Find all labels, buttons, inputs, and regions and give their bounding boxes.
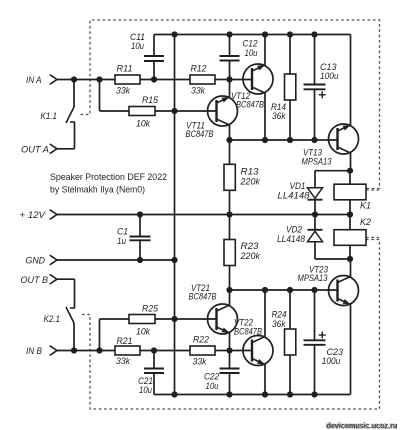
wire VT22 emitter — [264, 365, 266, 395]
svg-text:BC847B: BC847B — [234, 327, 262, 338]
wire GND — [57, 259, 175, 261]
resistor R12 — [190, 75, 215, 84]
svg-text:BC847B: BC847B — [186, 129, 214, 140]
port OUT A — [50, 144, 57, 154]
junction dots — [71, 76, 77, 82]
svg-text:220k: 220k — [240, 177, 262, 188]
svg-text:33k: 33k — [193, 357, 208, 368]
svg-text:LL4148: LL4148 — [278, 190, 311, 201]
svg-text:220k: 220k — [240, 251, 262, 262]
diode VD2 LL4148 — [314, 215, 316, 230]
transistor VT21 — [208, 304, 238, 334]
svg-text:+ 12V: + 12V — [20, 210, 47, 221]
port IN B — [50, 346, 57, 356]
resistor R11 — [115, 75, 140, 84]
svg-text:K2.1: K2.1 — [44, 314, 61, 325]
svg-text:LL4148: LL4148 — [277, 234, 306, 245]
svg-text:10k: 10k — [136, 327, 151, 338]
wire GND bottom bus — [154, 394, 351, 396]
transistor VT11 — [208, 96, 238, 126]
dashed PCB outline — [81, 20, 380, 409]
wire VT12 emitter — [264, 35, 266, 66]
svg-text:33k: 33k — [116, 356, 131, 367]
switch K2.1 — [73, 323, 75, 351]
resistor R24 — [289, 290, 291, 329]
svg-text:36k: 36k — [272, 319, 287, 330]
wire R25 branch — [99, 319, 101, 351]
wire VT11 collector — [229, 125, 231, 140]
transistor VT22 — [243, 336, 273, 366]
wire bus3 — [230, 289, 338, 291]
svg-text:BC847B: BC847B — [236, 100, 264, 111]
svg-text:R25: R25 — [142, 304, 159, 315]
svg-text:33k: 33k — [191, 86, 206, 97]
capacitor C21 — [153, 351, 155, 369]
capacitor C1 — [139, 215, 141, 237]
resistor R22 — [190, 346, 215, 355]
wire VT13 emitter — [350, 35, 352, 126]
wire VT13 collector — [350, 153, 352, 171]
svg-text:devicemusic.ucoz.ru: devicemusic.ucoz.ru — [327, 420, 398, 430]
svg-text:K1.1: K1.1 — [41, 111, 58, 122]
resistor R15 — [129, 107, 155, 116]
svg-text:33k: 33k — [116, 86, 131, 97]
resistor R13 — [229, 140, 231, 164]
port GND — [50, 255, 57, 265]
svg-text:OUT A: OUT A — [21, 145, 49, 156]
svg-text:IN A: IN A — [26, 75, 42, 86]
wire VT22 collector — [264, 290, 266, 337]
relay coil K1 — [349, 171, 351, 185]
capacitor C23 — [314, 290, 316, 340]
capacitor C13 — [314, 35, 316, 85]
wire VT23 emitter — [350, 305, 352, 395]
transistor VT12 — [243, 64, 273, 94]
wire IN B — [57, 350, 115, 352]
resistor R14 — [289, 35, 291, 75]
svg-text:K2: K2 — [360, 217, 372, 228]
wire OUT B — [57, 278, 75, 280]
svg-text:10u: 10u — [131, 41, 145, 52]
wire VT21 collector — [229, 290, 231, 305]
resistor R21 — [115, 346, 140, 355]
port IN A — [50, 75, 57, 85]
svg-text:K1: K1 — [360, 201, 371, 212]
wire R15 branch — [99, 80, 101, 112]
svg-text:BC847B: BC847B — [189, 292, 217, 303]
wire GND vertical — [174, 35, 176, 395]
wire VT11 emitter — [229, 80, 231, 98]
resistor R23 — [229, 215, 231, 240]
wire bus2 — [230, 139, 338, 141]
wire node K1 top — [315, 170, 351, 172]
svg-text:by Stelmakh Ilya (Nem0): by Stelmakh Ilya (Nem0) — [50, 184, 145, 195]
wire IN A — [57, 79, 115, 81]
svg-text:10u: 10u — [139, 385, 153, 396]
wire +12V bus — [57, 214, 350, 216]
wire GND top bus — [154, 34, 351, 36]
svg-text:OUT B: OUT B — [21, 275, 49, 286]
transistor VT23 — [329, 276, 359, 306]
capacitor C12 — [229, 35, 231, 57]
resistor R25 — [129, 315, 155, 324]
svg-text:10k: 10k — [136, 119, 151, 130]
svg-text:36k: 36k — [272, 111, 287, 122]
capacitor C22 — [229, 351, 231, 369]
port +12V — [50, 210, 57, 220]
wire VT23 collector — [350, 259, 352, 277]
svg-text:10u: 10u — [245, 48, 259, 59]
port OUT B — [50, 274, 57, 284]
wire VT12 base — [230, 79, 253, 81]
diode VD1 LL4148 — [314, 171, 316, 188]
svg-text:100u: 100u — [320, 71, 339, 82]
relay K2 mech link — [366, 237, 379, 239]
svg-text:R15: R15 — [142, 95, 159, 106]
wire VT12 collector — [264, 93, 266, 140]
svg-text:10u: 10u — [206, 381, 220, 392]
svg-text:MPSA13: MPSA13 — [302, 157, 333, 168]
svg-text:GND: GND — [26, 256, 46, 267]
svg-text:MPSA13: MPSA13 — [298, 273, 329, 284]
relay coil K2 — [349, 215, 351, 230]
svg-text:R11: R11 — [117, 64, 133, 75]
svg-text:Speaker Protection DEF 2022: Speaker Protection DEF 2022 — [50, 171, 167, 182]
relay K1 mech link — [366, 189, 379, 191]
svg-text:1u: 1u — [117, 236, 127, 247]
transistor VT13 — [329, 124, 359, 154]
capacitor C11 — [153, 61, 155, 80]
wire VT22 base — [230, 350, 253, 352]
switch K1.1 — [73, 80, 75, 108]
wire node K2 bottom — [315, 258, 351, 260]
svg-text:100u: 100u — [322, 356, 341, 367]
wire OUT A — [57, 148, 75, 150]
svg-text:R21: R21 — [117, 336, 133, 347]
svg-text:R12: R12 — [191, 64, 208, 75]
svg-text:IN B: IN B — [26, 346, 43, 357]
svg-text:R22: R22 — [193, 335, 210, 346]
wire VT21 emitter — [229, 333, 231, 351]
